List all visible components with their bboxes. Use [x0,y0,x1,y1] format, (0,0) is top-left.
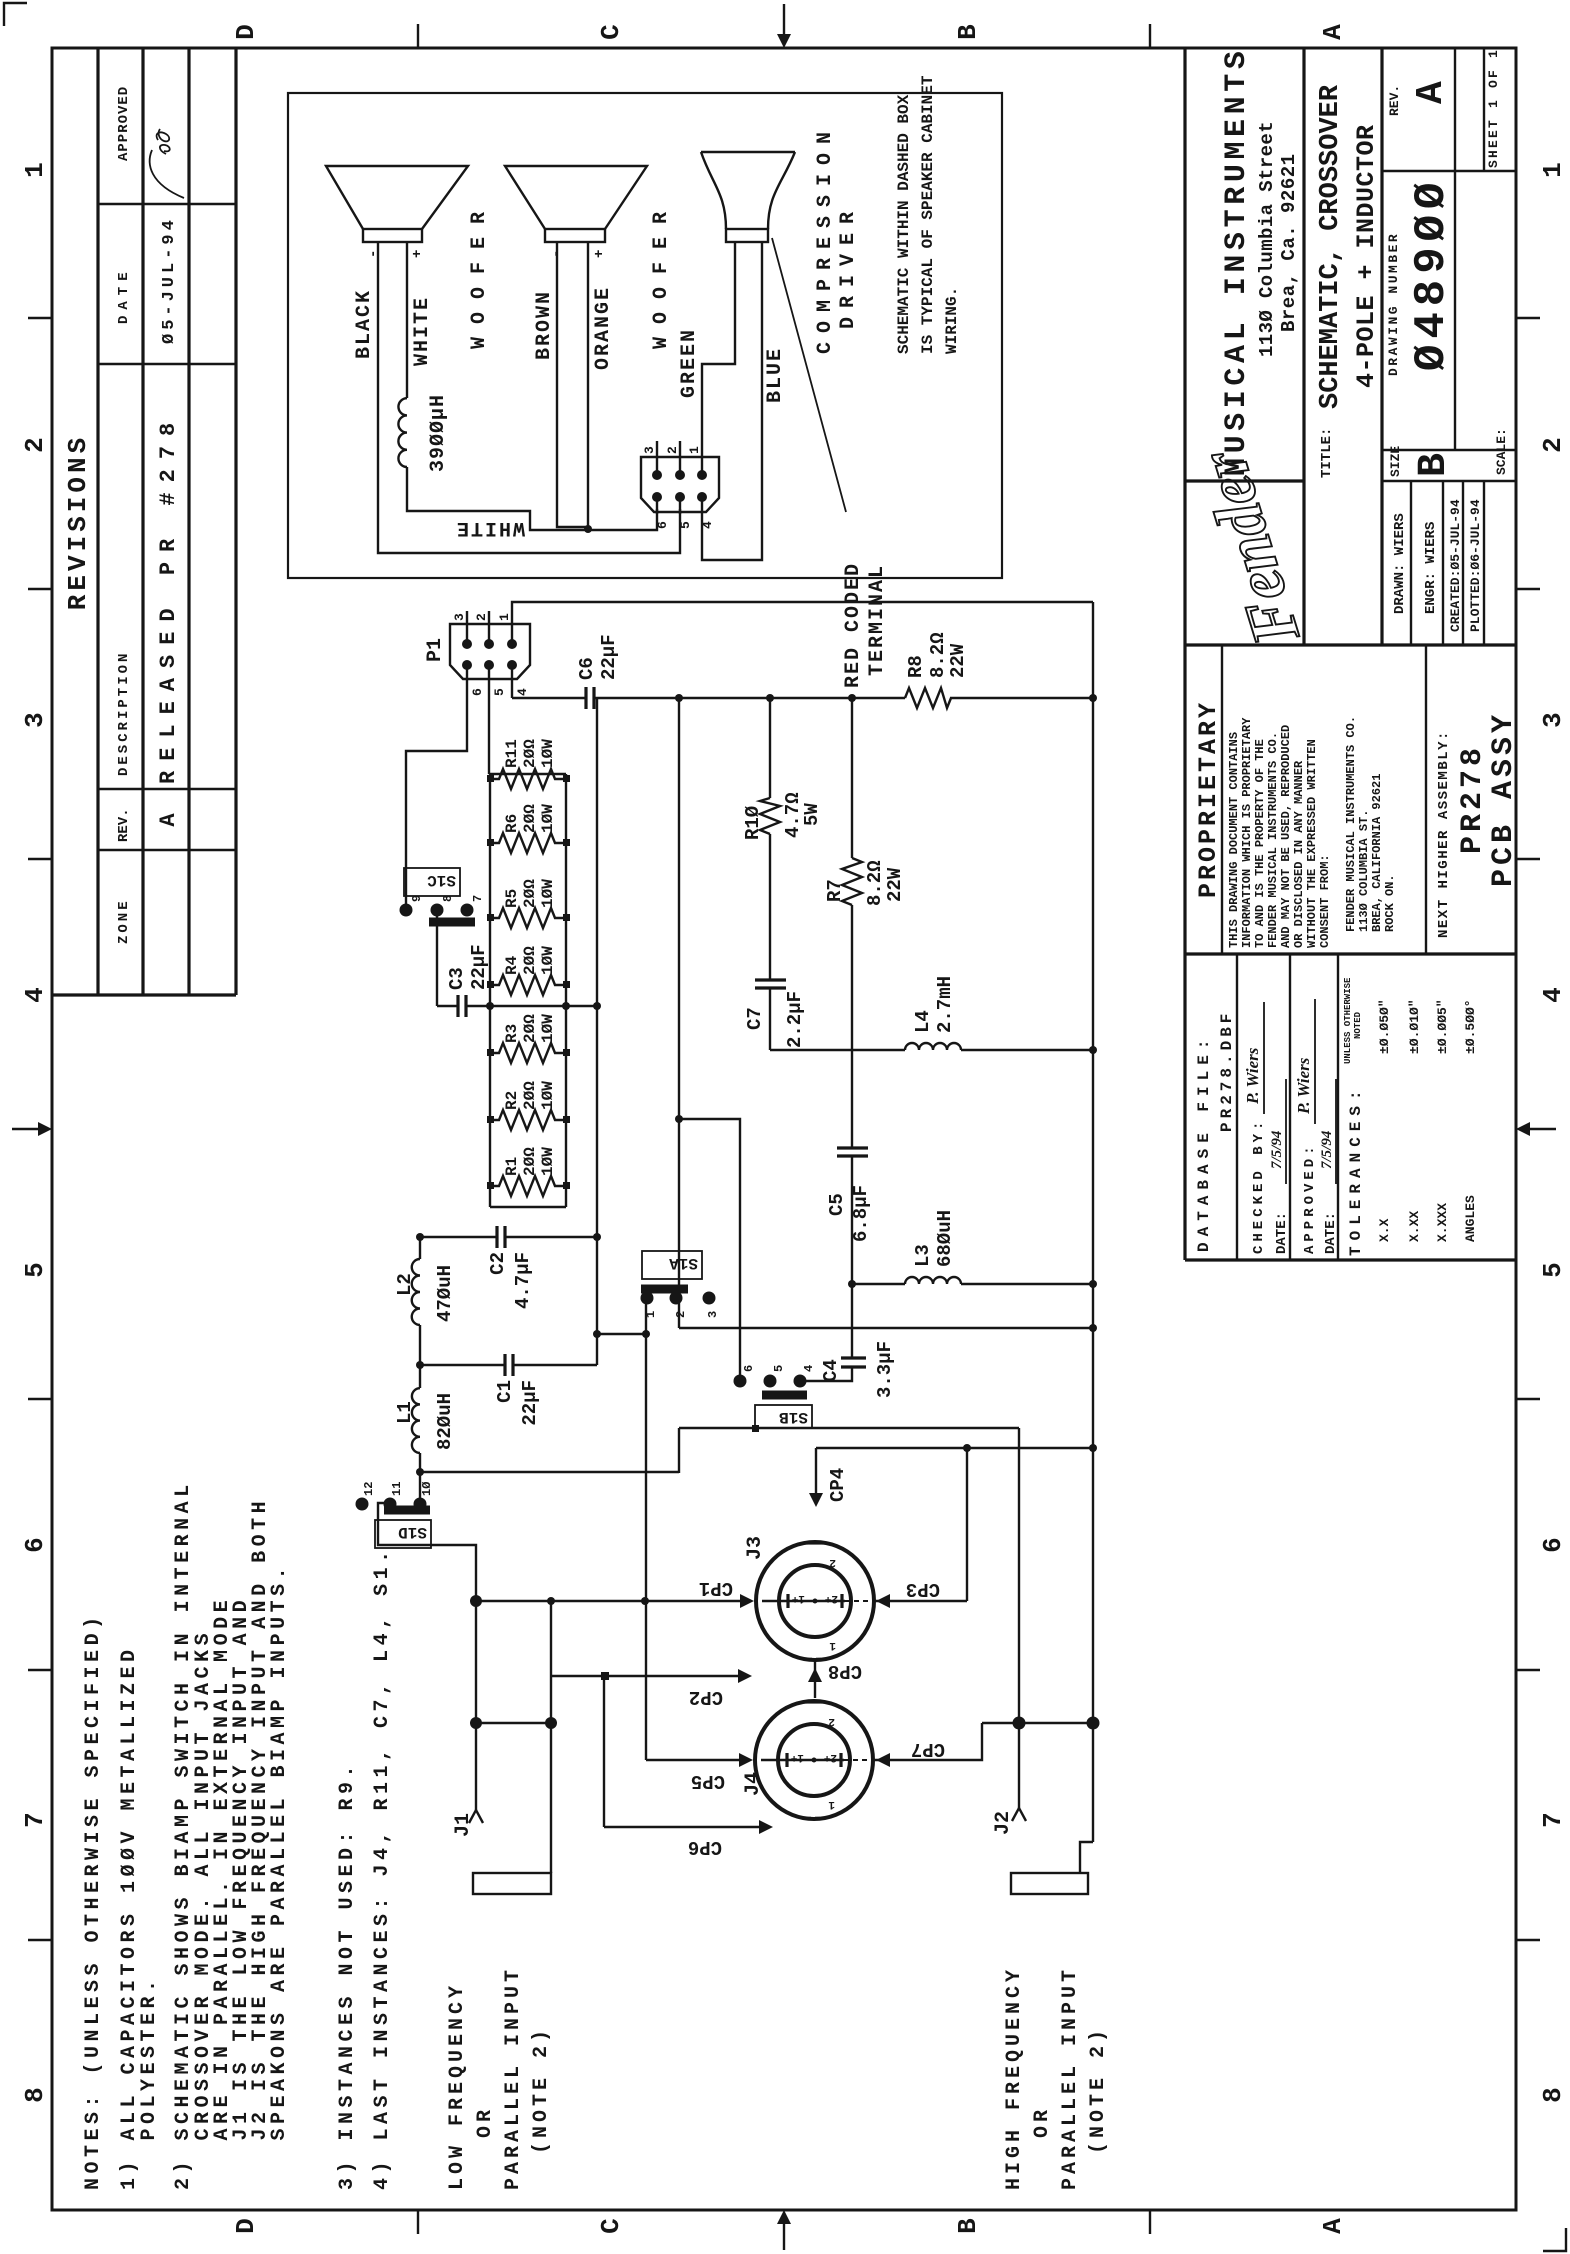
center arrow bottom edge [1524,1128,1556,1130]
svg-text:4: 4 [20,987,50,1003]
speakon pad J2 [1011,1873,1088,1894]
svg-text:LOW FREQUENCY: LOW FREQUENCY [446,1982,469,2190]
svg-text:8: 8 [1538,2087,1568,2103]
wire P1 pin1 to right rail [512,602,1093,611]
bottom bus wire [1092,602,1094,1842]
connector P1 body [450,624,530,679]
svg-text:RELEASED PR #278: RELEASED PR #278 [156,413,181,784]
fender script logo [1186,441,1314,654]
svg-text:2ØΩ: 2ØΩ [521,1147,539,1176]
svg-text:6: 6 [470,688,485,696]
wire P1 pin5 to ladder top rail [488,698,490,774]
svg-text:7: 7 [1538,1812,1568,1828]
svg-text:1ØW: 1ØW [539,1081,557,1110]
inductor 3900uH [398,398,407,467]
svg-text:39ØØµH: 39ØØµH [427,394,450,472]
wire branch y679 right part [679,698,1093,1328]
capacitor C6 22uF [586,687,594,709]
svg-text:7: 7 [471,895,485,902]
svg-text:R5: R5 [503,889,521,908]
svg-text:4: 4 [1538,987,1568,1003]
wire P1 pin6 to S1C pin9 [406,698,467,910]
svg-text:2+: 2+ [824,1592,838,1604]
svg-text:3: 3 [20,712,50,728]
svg-text:1ØW: 1ØW [539,1014,557,1043]
svg-text:C4: C4 [820,1359,842,1382]
bus wire y597 C1/C2 bottoms [596,698,598,1365]
svg-text:PLOTTED:Ø6-JUL-94: PLOTTED:Ø6-JUL-94 [1468,499,1483,632]
resistor R3 20ohm 10W [490,1043,566,1063]
svg-text:7/5/94: 7/5/94 [1269,1130,1285,1169]
svg-text:R4: R4 [503,955,521,975]
svg-text:3: 3 [642,446,657,454]
svg-text:REVISIONS: REVISIONS [63,434,93,610]
svg-text:PARALLEL INPUT: PARALLEL INPUT [502,1966,525,2190]
inductor L3 680uH [852,1283,1093,1285]
svg-text:S1C: S1C [427,871,456,889]
svg-text:TOLERANCES:: TOLERANCES: [1347,1084,1365,1256]
svg-text:113Ø Columbia Street: 113Ø Columbia Street [1256,121,1278,357]
switch S1C [400,904,413,917]
svg-text:12: 12 [362,1482,376,1496]
P1 pins left column 6,5,4 [462,660,472,670]
svg-text:(NOTE 2): (NOTE 2) [530,2026,553,2154]
proprietary block [1222,645,1426,954]
svg-text:5: 5 [20,1262,50,1278]
svg-text:CP8: CP8 [828,1660,862,1682]
svg-text:B: B [953,24,983,40]
P1 pins right column 3,2,1 [462,639,472,649]
svg-text:82ØuH: 82ØuH [434,1393,456,1450]
svg-text:ORANGE: ORANGE [592,286,615,370]
woofer SPK1 [363,229,422,242]
svg-text:113Ø COLUMBIA ST.: 113Ø COLUMBIA ST. [1357,810,1371,932]
svg-text:2ØΩ: 2ØΩ [521,879,539,908]
svg-text:68ØuH: 68ØuH [934,1210,956,1267]
svg-text:47ØuH: 47ØuH [434,1265,456,1322]
wire branch y679 left part to riser [679,1428,1019,1473]
svg-text:2+: 2+ [823,1751,837,1763]
svg-text:HIGH FREQUENCY: HIGH FREQUENCY [1003,1966,1026,2190]
svg-text:R7: R7 [824,879,846,902]
svg-text:R1Ø: R1Ø [742,806,764,840]
junction dots on rail [675,694,683,702]
capacitor C7 2.2uF [755,980,786,988]
svg-text:D: D [231,2218,261,2234]
approved signature [150,150,184,198]
svg-text:L1: L1 [394,1401,416,1424]
cabinet connector pins right column 3,2,1 [652,470,662,480]
svg-text:APPROVED:: APPROVED: [1302,1142,1318,1254]
svg-text:2.7mH: 2.7mH [934,976,956,1033]
svg-text:1: 1 [828,1798,835,1810]
svg-text:6: 6 [742,1365,756,1372]
center arrow left edge [783,2218,785,2250]
wire CP6 into J4 lower [604,1676,763,1827]
svg-text:THIS DRAWING DOCUMENT CONTAINS: THIS DRAWING DOCUMENT CONTAINS [1227,732,1241,948]
drawn/engr/created cells [1411,481,1484,645]
svg-text:-: - [366,250,382,258]
wire CP1 with arrow into J3 [476,1600,744,1602]
svg-text:2: 2 [665,446,680,454]
svg-text:1: 1 [829,1639,836,1651]
jack J3 [756,1542,874,1660]
svg-text:C6: C6 [576,657,598,680]
resistor ladder rails [490,774,566,1207]
size / drawing number / rev cells [1382,48,1516,450]
svg-text:X.X: X.X [1377,1218,1392,1242]
switch S1A [641,1292,654,1305]
cabinet connector body [641,457,719,512]
svg-text:OR: OR [474,2106,497,2138]
svg-text:POLYESTER.: POLYESTER. [138,1975,161,2190]
svg-text:B: B [1412,453,1457,477]
svg-text:COMPRESSION: COMPRESSION [814,123,837,354]
J3 tick right pin2 [807,1541,823,1544]
svg-text:C: C [596,2218,626,2234]
resistor R8 8.2ohm 22W [905,688,951,708]
svg-text:22W: 22W [884,867,906,902]
svg-text:NOTED: NOTED [1353,1011,1363,1039]
svg-text:A: A [1410,81,1453,104]
svg-text:7: 7 [20,1812,50,1828]
svg-text:3: 3 [706,1311,720,1318]
svg-text:PROPRIETARY: PROPRIETARY [1194,700,1223,898]
svg-text:1: 1 [20,162,50,178]
wire S1C pin8 to C3 column [436,910,438,1006]
svg-text:DATE:: DATE: [1274,1212,1290,1254]
svg-text:C: C [596,24,626,40]
database file block [1237,954,1338,1260]
svg-text:8.2Ω: 8.2Ω [864,860,886,906]
fender logo cell [1185,48,1382,645]
svg-text:8: 8 [20,2087,50,2103]
svg-text:L3: L3 [912,1244,934,1267]
zone ticks left edge [418,2210,1150,2234]
svg-text:DATE: DATE [116,266,132,324]
svg-text:CP1: CP1 [699,1577,733,1599]
svg-text:X.XXX: X.XXX [1435,1203,1450,1242]
svg-text:22µF: 22µF [468,944,490,990]
svg-text:X.XX: X.XX [1407,1211,1422,1242]
center arrow right edge [783,4,785,40]
svg-text:FENDER MUSICAL INSTRUMENTS CO.: FENDER MUSICAL INSTRUMENTS CO. [1344,716,1358,932]
svg-text:2: 2 [20,437,50,453]
svg-text:SCALE:: SCALE: [1494,428,1509,475]
svg-text:S1D: S1D [398,1523,427,1541]
svg-text:A: A [1318,24,1348,40]
J3 inner tick bottom 2+ [840,1594,843,1608]
svg-text:4) LAST INSTANCES: J4, R11, C7: 4) LAST INSTANCES: J4, R11, C7, L4, S1. [371,1546,394,2190]
svg-text:TITLE:: TITLE: [1319,428,1335,478]
center arrow top edge [12,1128,44,1130]
svg-text:SPEAKONS ARE PARALLEL BIAMP IN: SPEAKONS ARE PARALLEL BIAMP INPUTS. [268,1563,291,2190]
svg-text:CP7: CP7 [911,1738,945,1760]
svg-text:UNLESS OTHERWISE: UNLESS OTHERWISE [1343,977,1353,1064]
svg-text:WOOFER: WOOFER [650,199,673,349]
wire WHITE with inductor [407,242,657,530]
capacitor C5 6.8uF [837,1148,868,1156]
J3 inner tick top 1+ [786,1594,789,1608]
wire C2 column [420,1236,597,1238]
svg-text:GREEN: GREEN [678,328,701,398]
svg-text:OR: OR [1031,2106,1054,2138]
svg-text:ROCK ON.: ROCK ON. [1383,874,1397,932]
svg-text:1ØW: 1ØW [539,804,557,833]
svg-text:D: D [231,24,261,40]
svg-text:3: 3 [452,613,467,621]
pointer line to terminal [772,238,846,512]
resistor R7 8.2ohm 22W [842,858,862,905]
J4 tick left dashed pin1 [806,1817,822,1820]
wire CP2 down from pad row [551,1675,740,1677]
svg-text:PR278.DBF: PR278.DBF [1218,1010,1236,1132]
svg-text:B: B [953,2218,983,2234]
wire branch y770 with C7 and R10 [769,698,771,1050]
svg-text:TO AND IS THE PROPERTY OF THE: TO AND IS THE PROPERTY OF THE [1253,739,1267,948]
wire P1 pin4 down to C6 [512,697,586,699]
svg-text:1+: 1+ [791,1592,805,1604]
wire C1 column [420,1364,597,1366]
svg-text:CP2: CP2 [689,1686,723,1708]
J4 inner tick bottom 2+ [839,1753,842,1767]
bus x531 upper segment [474,1722,551,1724]
svg-text:AND MAY NOT BE USED, REPRODUCE: AND MAY NOT BE USED, REPRODUCED [1279,725,1293,948]
capacitor C4 3.3uF [841,1358,866,1367]
svg-text:±Ø.5ØØ°: ±Ø.5ØØ° [1463,999,1478,1054]
svg-text:BLUE: BLUE [764,347,787,403]
svg-text:DESCRIPTION: DESCRIPTION [116,651,132,776]
svg-text:C3: C3 [446,967,468,990]
svg-text:INFORMATION WHICH IS PROPRIETA: INFORMATION WHICH IS PROPRIETARY [1240,717,1254,948]
svg-text:ANGLES: ANGLES [1463,1195,1478,1242]
capacitor C2 4.7uF [497,1226,505,1248]
svg-text:C5: C5 [826,1193,848,1216]
svg-text:Brea, Ca. 92621: Brea, Ca. 92621 [1278,153,1300,332]
wire GREEN [702,242,735,441]
svg-text:2: 2 [1538,437,1568,453]
resistor R1 20ohm 10W [490,1176,566,1196]
svg-text:OR DISCLOSED IN ANY MANNER: OR DISCLOSED IN ANY MANNER [1292,760,1306,948]
inductor L1 820uH [412,1388,420,1453]
svg-text:3: 3 [1538,712,1568,728]
svg-text:CP6: CP6 [688,1836,722,1858]
svg-text:2ØΩ: 2ØΩ [521,1081,539,1110]
svg-text:R1: R1 [503,1157,521,1176]
svg-text:J2: J2 [992,1811,1015,1835]
wire BLACK [378,242,680,553]
svg-text:S1A: S1A [669,1254,698,1272]
wire branch y852 with C5 and R7 [851,698,853,1358]
svg-text:C7: C7 [744,1007,766,1030]
svg-text:BREA, CALIFORNIA 92621: BREA, CALIFORNIA 92621 [1370,774,1384,932]
cabinet dashed box [288,93,1002,578]
svg-text:J3: J3 [744,1536,767,1560]
svg-text:4: 4 [515,688,530,696]
svg-text:1ØW: 1ØW [539,946,557,975]
svg-text:REV.: REV. [116,808,132,842]
svg-text:J4: J4 [742,1772,765,1796]
svg-text:DRAWING NUMBER: DRAWING NUMBER [1386,232,1401,376]
cabinet connector pins left column 6,5,4 [652,492,662,502]
svg-text:2ØΩ: 2ØΩ [521,1014,539,1043]
svg-text:4: 4 [802,1365,816,1372]
capacitor C1 22uF [505,1354,513,1376]
J4 tick right pin2 [806,1700,822,1703]
J4 through wire [761,1759,844,1761]
label high frequency input [1003,1966,1110,2190]
label low frequency input [446,1966,553,2190]
svg-text:DRAWN: WIERS: DRAWN: WIERS [1392,513,1408,614]
svg-text:NOTES: (UNLESS OTHERWISE SPECI: NOTES: (UNLESS OTHERWISE SPECIFIED) [82,1612,105,2190]
svg-text:WHITE: WHITE [411,296,434,366]
compression driver [726,229,768,242]
svg-text:1ØW: 1ØW [539,1147,557,1176]
svg-text:C2: C2 [487,1252,509,1275]
svg-text:DATABASE FILE:: DATABASE FILE: [1195,1034,1213,1252]
switch S1D [356,1498,369,1511]
svg-text:6.8µF: 6.8µF [850,1185,872,1242]
svg-text:6: 6 [1538,1537,1568,1553]
svg-text:NEXT HIGHER ASSEMBLY:: NEXT HIGHER ASSEMBLY: [1436,730,1452,938]
svg-text:S1B: S1B [779,1408,808,1426]
svg-text:+: + [410,250,426,258]
svg-text:5: 5 [492,688,507,696]
wire y679 drop to S1B [679,1119,740,1381]
svg-text:SHEET 1 OF 1: SHEET 1 OF 1 [1486,48,1501,168]
svg-text:3.3µF: 3.3µF [874,1341,896,1398]
svg-text:4.7µF: 4.7µF [512,1252,534,1309]
resistor R5 20ohm 10W [490,908,566,928]
svg-text:5: 5 [678,521,693,529]
svg-text:C1: C1 [494,1380,516,1403]
corner trim mark bottom-left [1543,2228,1566,2251]
svg-text:L2: L2 [394,1273,416,1296]
wire y679 left leg up to L1 wire [420,1471,679,1473]
svg-text:SCHEMATIC, CROSSOVER: SCHEMATIC, CROSSOVER [1316,84,1346,409]
svg-text:WITHOUT THE EXPRESSED WRITTEN: WITHOUT THE EXPRESSED WRITTEN [1305,739,1319,948]
wire pad J2 to bus [1080,1842,1093,1873]
svg-text:R8: R8 [905,655,927,678]
svg-text:11: 11 [390,1482,404,1496]
resistor R6 20ohm 10W [490,833,566,853]
wire S1B pin4 to C4 [800,1367,852,1381]
junction orange/white [584,525,592,533]
svg-text:RED CODED: RED CODED [842,562,865,688]
J3 tick left dashed pin1 [807,1658,823,1661]
svg-text:P. Wiers: P. Wiers [1243,1047,1262,1105]
svg-text:PCB ASSY: PCB ASSY [1487,711,1521,887]
svg-text:2: 2 [829,1556,836,1568]
svg-text:DATE:: DATE: [1323,1212,1339,1254]
resistor R4 20ohm 10W [490,975,566,995]
svg-text:22µF: 22µF [519,1380,541,1426]
svg-text:22W: 22W [947,643,969,678]
svg-text:P. Wiers: P. Wiers [1294,1057,1313,1115]
zone ticks top edge [28,318,52,1940]
wire BROWN [557,242,588,527]
svg-text:6: 6 [655,521,670,529]
svg-text:2: 2 [674,1311,688,1318]
wire CP5 into J4 [646,1759,743,1761]
wire J1 to S1D pin 11 [378,1503,476,1810]
J4 inner tick top 1+ [785,1753,788,1767]
wire BLUE [702,242,762,560]
main rail below C6 with R8 [594,697,1093,699]
svg-text:WOOFER: WOOFER [468,199,491,349]
notes block [82,1480,394,2190]
svg-text:ZONE: ZONE [116,898,132,944]
svg-text:SIZE: SIZE [1388,446,1403,477]
svg-text:22µF: 22µF [598,634,620,680]
svg-text:R11: R11 [503,739,521,768]
svg-text:6: 6 [20,1537,50,1553]
svg-text:Ø489ØØ: Ø489ØØ [1407,177,1457,371]
revisions table grid [52,48,236,995]
svg-text:1ØW: 1ØW [539,739,557,768]
wire pad J1 row [550,1601,552,1873]
svg-text:2ØΩ: 2ØΩ [521,739,539,768]
wire y967 to CP4 riser [816,1448,1093,1601]
svg-text:P1: P1 [424,638,447,662]
svg-text:1+: 1+ [790,1751,804,1763]
resistor R2 20ohm 10W [490,1110,566,1130]
svg-text:REV.: REV. [1387,85,1402,116]
svg-text:1Ø: 1Ø [420,1482,434,1496]
inductor L4 2.7mH [770,1049,1093,1051]
svg-text:BLACK: BLACK [353,289,376,359]
C3 column wire [437,1005,597,1007]
svg-text:MUSICAL INSTRUMENTS: MUSICAL INSTRUMENTS [1220,47,1254,476]
svg-text:1: 1 [687,446,702,454]
svg-text:L4: L4 [912,1010,934,1033]
svg-text:WIRING.: WIRING. [943,287,961,354]
svg-text:(NOTE 2): (NOTE 2) [1087,2026,1110,2154]
J3 through wire [762,1600,845,1602]
svg-text:1ØW: 1ØW [539,879,557,908]
svg-text:7/5/94: 7/5/94 [1319,1130,1335,1169]
speakon pad J1 [473,1873,551,1894]
svg-text:TERMINAL: TERMINAL [866,564,889,676]
svg-text:PR278: PR278 [1456,744,1490,854]
jack J4 [755,1701,873,1819]
svg-text:CP4: CP4 [827,1468,849,1502]
bus x531 lower segment [982,1722,1093,1724]
svg-text:+: + [592,250,608,258]
svg-text:ENGR: WIERS: ENGR: WIERS [1423,522,1439,614]
svg-text:2.2µF: 2.2µF [784,991,806,1048]
svg-text:2: 2 [474,613,489,621]
wire CP7 from J4 bottom [871,1723,982,1760]
wire S1A pin1 left to CP5 [645,1298,647,1760]
wire J2 row [1018,1428,1020,1808]
svg-text:5: 5 [1538,1262,1568,1278]
svg-text:5: 5 [772,1365,786,1372]
svg-text:4-POLE + INDUCTOR: 4-POLE + INDUCTOR [1352,124,1381,388]
title block outline [1185,48,1516,1260]
zone ticks bottom edge [1516,318,1540,1940]
svg-text:8.2Ω: 8.2Ω [927,632,949,678]
svg-text:FENDER MUSICAL INSTRUMENTS CO.: FENDER MUSICAL INSTRUMENTS CO. [1266,732,1280,948]
svg-text:A: A [156,813,181,827]
zone ticks right edge [418,24,1150,48]
svg-text:R2: R2 [503,1091,521,1110]
inductor L2 470uH [412,1259,420,1325]
capacitor C3 22uF [458,995,466,1017]
corner trim mark top-right [4,3,27,26]
svg-text:CP5: CP5 [691,1770,725,1792]
svg-text:1: 1 [497,613,512,621]
